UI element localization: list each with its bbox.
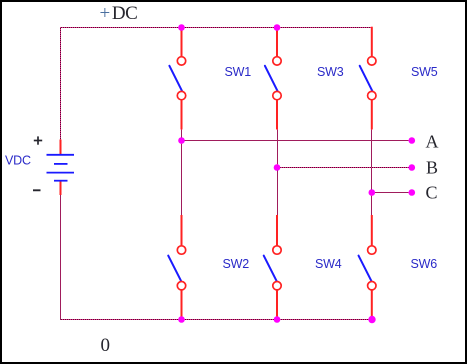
node A terminal dot [409,137,416,144]
switch SW3 top terminal [273,57,281,65]
wire leg2 mid maroon segment [277,130,279,216]
junction dot top rail leg2 [274,24,281,31]
switch SW6 top terminal [368,246,376,254]
svg-text:SW3: SW3 [317,65,344,79]
switch SW5 top terminal [368,57,376,65]
svg-text:B: B [426,158,438,178]
svg-text:SW4: SW4 [315,257,342,271]
switch SW3 bottom terminal [273,91,281,99]
wire leg3 red lead above SW6 [371,215,373,246]
svg-text:SW6: SW6 [411,257,438,271]
switch SW2 top terminal [177,246,185,254]
wire leg2 red lead below SW3 [276,100,278,130]
wire leg3 bottom red lead [371,290,373,321]
svg-text:SW5: SW5 [411,65,438,79]
node B junction dot [274,164,281,171]
wire phase A line [182,140,412,142]
switch SW2 blade [168,256,181,282]
wire leg2 top red lead [276,27,278,57]
switch SW1 bottom terminal [177,91,185,99]
svg-text:SW2: SW2 [223,257,250,271]
junction dot bottom rail leg3 [368,316,375,323]
wire leg3 top red lead [371,27,373,57]
battery minus sign [33,189,41,191]
battery VDC plates [47,155,75,181]
switch SW4 blade [264,256,277,282]
svg-text:SW1: SW1 [225,65,252,79]
wire leg3 red lead below SW5 [371,100,373,130]
wire 0 bottom rail [60,319,373,321]
wire leg2 red lead above SW4 [276,215,278,246]
svg-text:VDC: VDC [5,154,31,168]
switch SW6 blade [359,256,372,282]
junction dot bottom rail leg1 [178,316,185,323]
node C terminal dot [409,189,416,196]
switch SW2 bottom terminal [177,282,185,290]
battery VDC positive lead [60,140,62,156]
node C junction dot [369,189,376,196]
wire leg1 bottom red lead [181,290,183,321]
switch SW1 blade [169,66,182,91]
wire leg1 red lead above SW2 [181,215,183,246]
wire leg3 mid maroon segment [371,130,373,216]
wire leg1 mid maroon segment [181,130,183,216]
node B terminal dot [409,164,416,171]
svg-text:+DC: +DC [100,3,138,24]
wire +DC top rail [60,27,373,29]
wire left vertical upper [60,27,62,140]
node A junction dot [178,137,185,144]
wire leg1 red lead below SW1 [181,100,183,130]
wire phase C line [372,192,412,194]
switch SW3 blade [265,66,278,91]
switch SW5 bottom terminal [368,91,376,99]
switch SW4 bottom terminal [273,282,281,290]
switch SW1 top terminal [177,57,185,65]
svg-text:A: A [426,131,439,151]
wire leg1 top red lead [181,27,183,57]
battery plus sign [34,136,42,144]
wire phase B line [277,167,412,169]
junction dot bottom rail leg2 [274,316,281,323]
wire left vertical lower [60,195,62,321]
junction dot top rail leg1 [178,24,185,31]
svg-text:C: C [426,183,438,203]
switch SW4 top terminal [273,246,281,254]
switch SW5 blade [360,66,373,91]
wire leg2 bottom red lead [276,290,278,321]
svg-text:0: 0 [101,335,111,356]
switch SW6 bottom terminal [368,282,376,290]
battery VDC negative lead [60,181,62,195]
